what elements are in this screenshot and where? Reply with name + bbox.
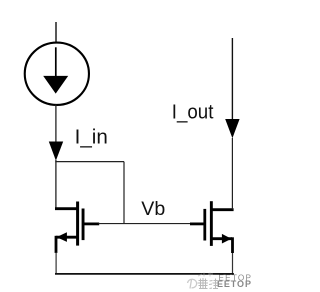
wire M1 source to ground rail — [55, 253, 57, 274]
wire gate rail Vb — [99, 223, 191, 225]
wire from current source to node A — [55, 105, 57, 145]
wire I_out branch — [231, 38, 233, 121]
M2 source corner stub — [231, 237, 234, 253]
I_out current arrow — [225, 119, 239, 138]
wire node A down to M1 drain — [55, 160, 57, 210]
current source I1 — [25, 43, 89, 105]
M1 source corner stub — [55, 236, 58, 253]
wire ground rail — [55, 273, 234, 275]
M1 channel bar — [76, 202, 79, 246]
svg-text:I_in: I_in — [75, 126, 108, 149]
wire feedback horizontal node A to gate column — [55, 161, 124, 163]
M2 source arrow — [222, 234, 232, 244]
M1 drain lead — [55, 207, 79, 210]
M1 source arrow — [57, 232, 67, 242]
M2 drain lead — [211, 208, 234, 211]
watermark EETOP — [188, 273, 253, 290]
M1 gate bar — [82, 209, 85, 241]
M2 gate bar — [203, 209, 206, 241]
svg-text:EETOP: EETOP — [217, 279, 252, 289]
I_in current arrow — [49, 142, 63, 161]
M2 gate lead stub — [190, 222, 204, 225]
M2 source lead — [212, 237, 232, 240]
wire M2 source to ground rail — [232, 253, 234, 274]
wire top supply stub — [55, 22, 57, 43]
svg-text:Vb: Vb — [141, 198, 165, 220]
M2 channel bar — [210, 201, 213, 246]
M1 source lead — [56, 236, 77, 239]
wire I_out arrow to M2 drain — [231, 138, 233, 210]
svg-text:I_out: I_out — [172, 100, 214, 123]
wire feedback vertical down to gate rail — [123, 162, 125, 224]
M1 gate lead stub — [84, 222, 99, 225]
